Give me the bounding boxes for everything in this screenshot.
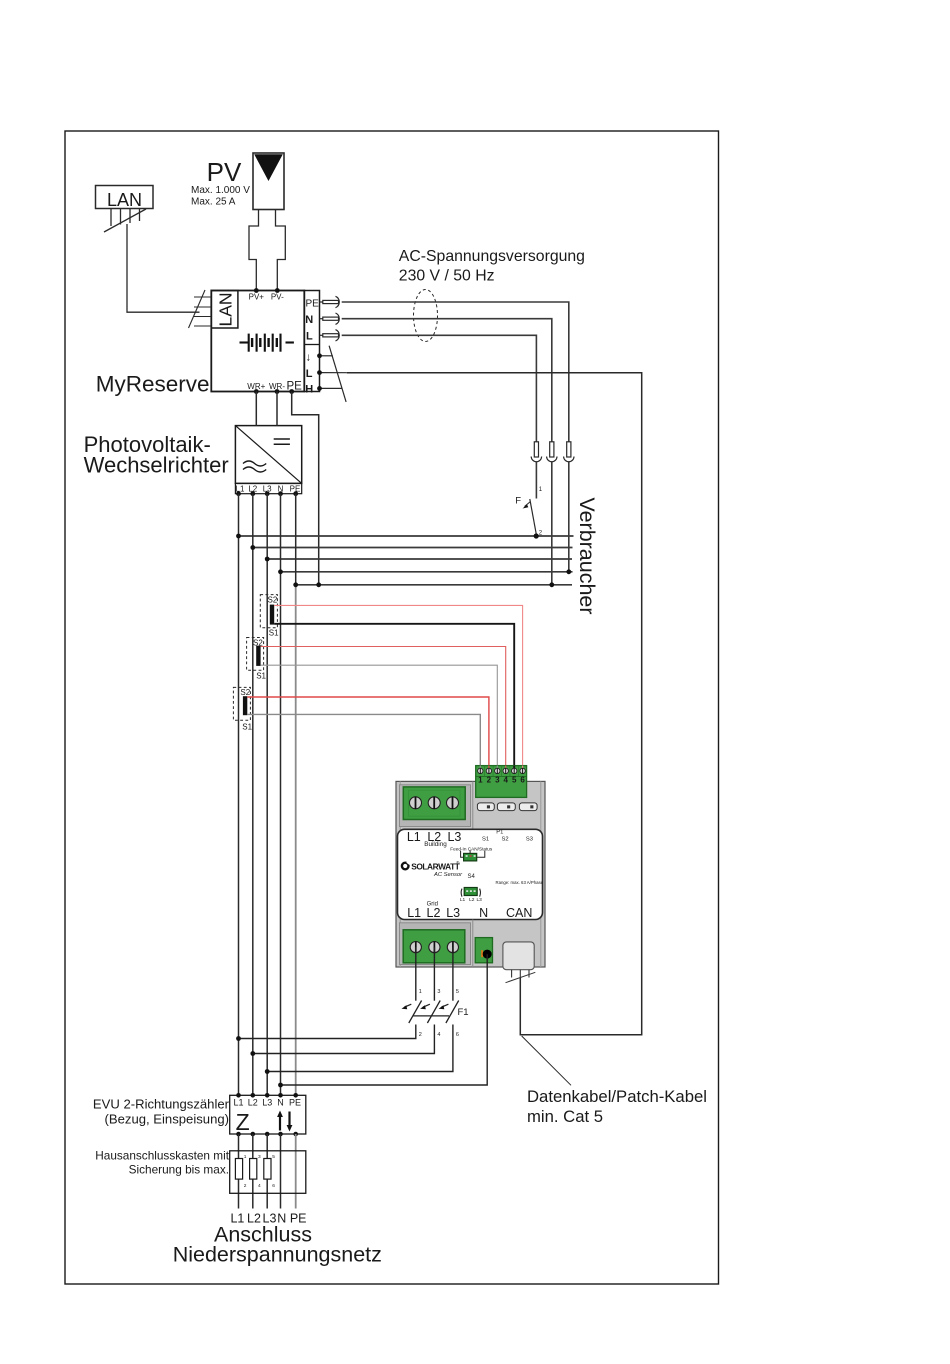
svg-text:3: 3 [437,989,440,995]
svg-text:6: 6 [456,1032,459,1038]
svg-text:1: 1 [244,1154,247,1160]
svg-text:L: L [306,331,313,343]
svg-text:5: 5 [272,1154,275,1160]
svg-text:L2: L2 [248,1098,258,1108]
svg-text:Building: Building [424,841,447,848]
svg-text:N: N [305,314,313,326]
svg-text:S2: S2 [268,596,278,605]
svg-text:Wechselrichter: Wechselrichter [84,452,229,477]
svg-text:Niederspannungsnetz: Niederspannungsnetz [173,1243,382,1267]
svg-text:EVU 2-Richtungszähler: EVU 2-Richtungszähler [93,1096,230,1111]
svg-text:MyReserve: MyReserve [96,372,210,397]
svg-text:S1: S1 [256,672,266,681]
svg-text:Hausanschlusskasten mit: Hausanschlusskasten mit [95,1149,229,1163]
svg-text:4: 4 [258,1183,261,1189]
svg-text:↓: ↓ [306,352,312,364]
svg-text:PV: PV [207,157,242,187]
svg-text:L: L [306,368,313,380]
svg-text:L1: L1 [407,830,421,844]
svg-text:Z: Z [236,1109,250,1135]
svg-text:Feed-In CAN/Status: Feed-In CAN/Status [450,847,493,852]
svg-text:L1: L1 [460,897,466,903]
svg-text:CAN: CAN [506,906,532,920]
svg-text:AC Sensor: AC Sensor [433,872,463,878]
svg-text:L1: L1 [407,906,421,920]
svg-text:L3: L3 [477,897,483,903]
svg-text:(Bezug, Einspeisung): (Bezug, Einspeisung) [105,1112,229,1127]
svg-text:5: 5 [512,776,517,785]
svg-text:Grid: Grid [427,902,438,908]
svg-text:PE: PE [289,1098,301,1108]
svg-text:6: 6 [520,776,525,785]
svg-text:L2: L2 [469,897,475,903]
svg-text:4: 4 [437,1032,440,1038]
svg-text:2: 2 [419,1032,422,1038]
svg-text:P1: P1 [496,830,503,836]
svg-text:3: 3 [258,1154,261,1160]
svg-text:230 V / 50 Hz: 230 V / 50 Hz [399,267,495,284]
svg-text:Range: max. 63 A/Phase: Range: max. 63 A/Phase [496,880,544,885]
svg-text:PE: PE [306,299,320,310]
svg-text:Sicherung bis max.: Sicherung bis max. [129,1163,229,1177]
svg-text:S2: S2 [240,688,250,697]
svg-text:S1: S1 [269,629,279,638]
svg-text:L3: L3 [262,1098,272,1108]
svg-text:1: 1 [539,487,543,493]
svg-text:1: 1 [419,989,422,995]
svg-text:S1: S1 [482,837,489,843]
svg-text:S2: S2 [501,837,508,843]
svg-text:1: 1 [478,776,483,785]
svg-text:N: N [277,1098,284,1108]
svg-text:2: 2 [487,776,492,785]
svg-text:F: F [515,496,521,507]
svg-text:LAN: LAN [216,292,236,326]
svg-text:5: 5 [456,989,459,995]
svg-text:H: H [305,384,313,396]
svg-text:L3: L3 [446,906,460,920]
svg-text:SOLARWATT: SOLARWATT [411,861,461,871]
svg-text:LAN: LAN [107,190,142,210]
svg-text:L2: L2 [427,906,441,920]
svg-text:PV-: PV- [271,293,284,302]
svg-text:PV+: PV+ [249,293,265,302]
svg-text:PE: PE [287,381,303,393]
svg-text:min. Cat 5: min. Cat 5 [527,1107,603,1126]
svg-text:Verbraucher: Verbraucher [575,497,599,614]
svg-text:2: 2 [244,1183,247,1189]
svg-text:S1: S1 [242,723,252,732]
svg-text:S3: S3 [526,837,533,843]
svg-text:Max. 1.000 V: Max. 1.000 V [191,185,250,196]
svg-text:N: N [479,906,488,920]
svg-text:Max. 25 A: Max. 25 A [191,197,236,208]
svg-text:AC-Spannungsversorgung: AC-Spannungsversorgung [399,248,585,265]
svg-text:3: 3 [495,776,500,785]
svg-text:Datenkabel/Patch-Kabel: Datenkabel/Patch-Kabel [527,1087,707,1106]
svg-text:6: 6 [272,1183,275,1189]
svg-text:F1: F1 [458,1007,469,1018]
svg-text:L1: L1 [233,1098,243,1108]
svg-text:L3: L3 [447,830,461,844]
svg-text:S4: S4 [468,874,476,880]
svg-text:4: 4 [503,776,508,785]
